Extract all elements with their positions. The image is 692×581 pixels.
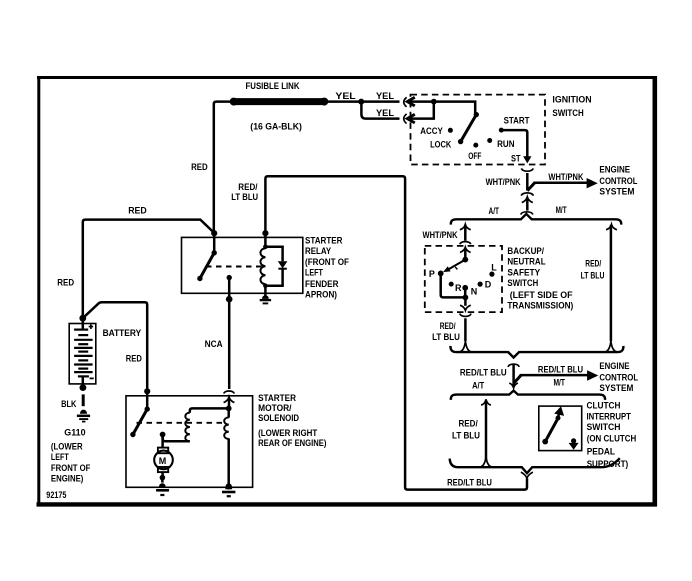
svg-text:YEL: YEL — [335, 91, 356, 101]
wire battery feed to fusible link (RED vertical) — [214, 102, 233, 232]
wire START to ST exit — [501, 130, 527, 156]
svg-text:(LEFT SIDE OF: (LEFT SIDE OF — [510, 290, 573, 300]
svg-text:YEL: YEL — [376, 108, 395, 118]
svg-text:SWITCH: SWITCH — [507, 278, 538, 288]
starter relay internals — [197, 234, 287, 293]
svg-text:LT BLU: LT BLU — [452, 430, 480, 440]
svg-text:RED/: RED/ — [440, 321, 456, 331]
solenoid switch blade — [133, 409, 147, 434]
relay output contact — [227, 275, 232, 280]
clutch switch internals — [542, 406, 578, 450]
connector female arc (WHT/PNK inline, upper) — [521, 193, 533, 196]
chevron male down above split 3 — [509, 383, 518, 388]
branch diagonal to ECS 2 — [514, 375, 522, 383]
connector female cup below brace 4 — [521, 472, 533, 478]
clutch lower contact dot — [571, 438, 576, 443]
junction dot below relay box — [226, 296, 233, 303]
motor M1 — [154, 436, 173, 483]
connector female arc above split brace 1 — [521, 212, 533, 215]
connector female arc NCA at starter box — [224, 391, 234, 394]
minus mark — [90, 377, 94, 379]
connector female arc below merge dip — [508, 364, 519, 367]
svg-text:ACCY: ACCY — [420, 126, 443, 136]
svg-text:BACKUP/: BACKUP/ — [507, 246, 544, 256]
svg-text:CLUTCH: CLUTCH — [587, 400, 621, 410]
svg-text:SUPPORT): SUPPORT) — [587, 459, 629, 469]
svg-text:PEDAL: PEDAL — [587, 446, 616, 456]
contact ACCY — [448, 128, 453, 133]
arrow down clutch to box bottom — [569, 443, 579, 450]
svg-text:ENGINE): ENGINE) — [51, 474, 84, 484]
svg-text:N: N — [471, 287, 478, 297]
junction dot at relay feed left — [211, 230, 217, 236]
svg-text:M: M — [159, 456, 167, 466]
fusible link end dot right — [320, 98, 328, 106]
fusible link bar — [234, 98, 325, 105]
svg-text:NCA: NCA — [205, 339, 223, 349]
svg-text:(16 GA-BLK): (16 GA-BLK) — [250, 122, 302, 132]
fusible link end dot left — [230, 98, 238, 106]
starter solenoid internals — [130, 393, 231, 486]
svg-text:FRONT OF: FRONT OF — [51, 463, 91, 473]
blade tick — [455, 267, 457, 269]
pull-in coil — [185, 413, 190, 442]
ignition switch dashed box — [411, 95, 546, 165]
wire WHT/PNK down — [526, 173, 529, 191]
starter motor ground — [156, 483, 169, 495]
wire A/T branch down WHT/PNK — [464, 225, 467, 241]
connector male arrow at ignition pin 1 — [407, 97, 415, 106]
split brace 3 A/T-M/T — [451, 391, 605, 400]
svg-text:RED/: RED/ — [459, 419, 479, 429]
svg-text:RED/: RED/ — [238, 182, 258, 192]
wire RED/LT BLU backup output down — [464, 318, 467, 341]
wire ignition feed bottom tie — [410, 102, 434, 119]
contact RUN — [487, 138, 492, 143]
svg-text:RED/LT BLU: RED/LT BLU — [447, 477, 492, 487]
svg-text:SAFETY: SAFETY — [507, 267, 540, 277]
wire RED/LT BLU clutch bypass — [485, 401, 488, 461]
dashed actuation link starter — [137, 422, 227, 424]
contact R — [449, 282, 454, 287]
arrow ECS 1 — [587, 178, 598, 188]
svg-text:RED/LT BLU: RED/LT BLU — [460, 367, 507, 377]
wire to engine control system 2 — [520, 374, 588, 377]
backup switch internals — [438, 249, 495, 311]
arrow up clutch blade — [554, 406, 564, 416]
svg-text:D: D — [485, 280, 492, 290]
relay ground — [260, 293, 271, 303]
svg-text:MOTOR/: MOTOR/ — [258, 403, 292, 413]
svg-text:LT BLU: LT BLU — [581, 271, 605, 281]
svg-text:BATTERY: BATTERY — [103, 328, 142, 338]
wire RED/LT BLU to split 3 — [512, 365, 515, 386]
svg-text:CONTROL: CONTROL — [599, 176, 637, 186]
chevron arrow up M/T branch 1 — [606, 224, 617, 230]
svg-text:STARTER: STARTER — [305, 236, 343, 246]
svg-text:RELAY: RELAY — [305, 246, 331, 256]
wire to engine control system 1 — [534, 182, 588, 185]
svg-text:SWITCH: SWITCH — [587, 422, 621, 432]
svg-text:TRANSMISSION): TRANSMISSION) — [507, 301, 573, 311]
junction dot at relay coil feed — [262, 230, 268, 236]
hold-in coil — [224, 417, 229, 439]
connector male chevron arrow NCA into starter box — [224, 397, 235, 403]
svg-text:ST: ST — [511, 154, 521, 164]
svg-text:LT BLU: LT BLU — [231, 192, 258, 202]
chevron male up into backup box — [460, 247, 471, 252]
dashed actuation link — [206, 266, 262, 268]
flare right vertical into brace — [605, 341, 616, 352]
junction dot solenoid ground — [226, 483, 232, 489]
svg-text:CONTROL: CONTROL — [599, 373, 638, 383]
chevron arrow up A/T branch 1 — [460, 224, 471, 230]
wire to pivot — [475, 113, 476, 115]
connector female arc at ignition pin 2 — [404, 114, 407, 124]
arrow ECS 2 — [587, 370, 598, 380]
svg-text:WHT/PNK: WHT/PNK — [486, 177, 521, 187]
flare bypass vertical into brace — [480, 457, 491, 467]
svg-text:ENGINE: ENGINE — [599, 165, 630, 175]
merge brace 2 with flares — [450, 341, 623, 358]
svg-text:RED: RED — [191, 162, 208, 172]
svg-text:LEFT: LEFT — [51, 452, 69, 462]
svg-text:L: L — [491, 262, 497, 272]
wire BLK battery to ground — [82, 394, 85, 406]
svg-text:NEUTRAL: NEUTRAL — [507, 257, 546, 267]
svg-text:M/T: M/T — [554, 378, 566, 388]
svg-text:FUSIBLE LINK: FUSIBLE LINK — [246, 81, 300, 91]
connector male arrow at ignition pin 2 — [407, 114, 415, 123]
connector female cup below backup box — [460, 314, 471, 317]
svg-text:OFF: OFF — [468, 151, 482, 161]
junction dot YEL split — [358, 99, 364, 105]
svg-text:RED/: RED/ — [585, 259, 601, 269]
junction dot ignition tie — [431, 99, 437, 105]
connector female arc at ignition pin 1 — [404, 97, 407, 107]
svg-text:G110: G110 — [64, 427, 85, 437]
svg-text:INTERRUPT: INTERRUPT — [587, 412, 632, 422]
chevron arrow up A/T branch 3 — [481, 399, 491, 405]
svg-text:R: R — [455, 283, 462, 293]
split brace 1 A/T-M/T — [451, 214, 621, 225]
svg-text:YEL: YEL — [376, 91, 395, 101]
svg-text:P: P — [429, 269, 435, 279]
border frame — [37, 76, 658, 506]
contact L — [489, 272, 494, 277]
diode bar — [278, 268, 286, 270]
svg-text:LEFT: LEFT — [305, 268, 323, 278]
connector male chevron up (WHT/PNK inline, lower) — [522, 197, 533, 203]
junction dot starter feed entry — [144, 388, 150, 394]
starter solenoid ground — [222, 485, 235, 496]
flare left vertical into brace — [460, 341, 471, 352]
svg-text:(FRONT OF: (FRONT OF — [305, 257, 349, 267]
wire P contact to output — [441, 273, 463, 297]
clutch interrupt switch box — [539, 406, 582, 451]
svg-text:A/T: A/T — [472, 381, 485, 391]
svg-text:REAR OF ENGINE): REAR OF ENGINE) — [258, 438, 326, 448]
contact D — [478, 282, 483, 287]
svg-text:92175: 92175 — [46, 490, 66, 500]
wire RED/LT BLU long M/T line — [610, 225, 613, 341]
svg-text:FENDER: FENDER — [305, 279, 339, 289]
wire NCA relay output to starter solenoid — [228, 279, 231, 390]
svg-text:(LOWER: (LOWER — [51, 442, 83, 452]
svg-text:BLK: BLK — [61, 399, 77, 409]
svg-text:WHT/PNK: WHT/PNK — [548, 172, 583, 182]
diode triangle — [278, 261, 288, 268]
contact START — [499, 128, 504, 133]
contact OFF — [473, 143, 478, 148]
arrow ST down (male) — [523, 156, 531, 163]
svg-text:APRON): APRON) — [305, 289, 337, 299]
wire YEL from fusible link — [325, 100, 400, 103]
contact N — [462, 285, 468, 291]
switch blade ignition — [461, 115, 477, 142]
svg-text:RED: RED — [57, 277, 74, 287]
merge brace 4 bottom — [450, 457, 620, 474]
connector female arc at backup switch input — [460, 242, 471, 245]
svg-text:LOCK: LOCK — [430, 140, 452, 150]
relay switch blade — [200, 253, 214, 279]
svg-text:RED: RED — [128, 205, 147, 215]
svg-text:SYSTEM: SYSTEM — [599, 187, 634, 197]
starter motor/solenoid box — [126, 396, 253, 488]
battery — [69, 315, 96, 391]
svg-text:SOLENOID: SOLENOID — [258, 413, 299, 423]
svg-text:LT BLU: LT BLU — [432, 332, 460, 342]
svg-text:RED/LT BLU: RED/LT BLU — [538, 365, 583, 375]
svg-text:WHT/PNK: WHT/PNK — [423, 230, 458, 240]
plus mark — [89, 324, 93, 329]
svg-text:RUN: RUN — [497, 139, 514, 149]
ground G110 — [77, 410, 90, 422]
wire WHT/PNK to A/T-M/T split — [526, 199, 529, 211]
svg-text:(ON CLUTCH: (ON CLUTCH — [587, 434, 637, 444]
svg-text:(LOWER RIGHT: (LOWER RIGHT — [258, 428, 318, 438]
svg-text:STARTER: STARTER — [258, 393, 296, 403]
branch diagonal to ECS 1 — [527, 183, 534, 191]
svg-text:RED: RED — [126, 353, 142, 363]
wire left RED horizontal run — [83, 220, 213, 318]
switch blade backup (arrow toward P) — [448, 260, 466, 270]
svg-text:START: START — [504, 115, 530, 125]
ignition switch S1 internals — [448, 112, 504, 148]
svg-text:M/T: M/T — [556, 205, 567, 215]
connector female cup under ST — [522, 168, 534, 171]
svg-text:SYSTEM: SYSTEM — [599, 383, 633, 393]
backup/neutral safety switch dashed box — [425, 246, 502, 312]
wire YEL lower branch — [361, 102, 399, 119]
wire ignition feed top — [410, 102, 476, 114]
chevron male down backup output — [460, 305, 471, 310]
starter relay box — [182, 237, 303, 293]
svg-text:IGNITION: IGNITION — [552, 95, 591, 105]
wire battery diagonal to starter RED — [85, 302, 148, 389]
diode branch — [265, 247, 282, 286]
wire RED/LT BLU net: relay coil to backup merge (long loop) — [265, 176, 527, 489]
relay coil — [260, 248, 265, 284]
svg-text:A/T: A/T — [489, 206, 500, 216]
svg-text:ENGINE: ENGINE — [599, 361, 629, 371]
svg-text:SWITCH: SWITCH — [552, 108, 583, 118]
